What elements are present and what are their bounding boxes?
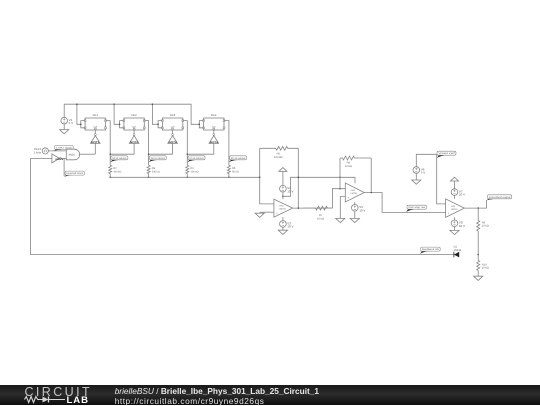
inverter NOT5 bbox=[52, 154, 64, 163]
AND gate AND1 bbox=[66, 149, 79, 160]
voltage source V6 bbox=[413, 167, 425, 175]
svg-text:Vset ref: Vset ref bbox=[438, 152, 455, 155]
junction Q column DF2 bbox=[148, 153, 150, 155]
voltage source V8 bbox=[451, 220, 465, 228]
junction OA3 output bbox=[477, 207, 479, 209]
svg-text:125 Hz subclock: 125 Hz subclock bbox=[189, 157, 204, 160]
svg-text:inverted clock: inverted clock bbox=[66, 172, 84, 175]
svg-text:250 Hz subclock: 250 Hz subclock bbox=[151, 157, 166, 160]
D flip-flop DF4 bbox=[203, 113, 225, 130]
wire DF2 Q output column bbox=[144, 121, 148, 166]
op-amp OA3 LM741 bbox=[446, 199, 465, 217]
wire V1 to bus bbox=[63, 104, 65, 117]
wire R3 to summing bus bbox=[148, 174, 150, 178]
wire R5 to summing bus bbox=[228, 174, 230, 178]
junction summing bus R4 bbox=[187, 177, 189, 179]
wire bus riser to DF2 bbox=[114, 104, 120, 124]
wire R7 to OA2 inverting input bbox=[332, 189, 345, 208]
svg-text:NOT3: NOT3 bbox=[169, 141, 178, 144]
svg-text:1N914: 1N914 bbox=[454, 249, 462, 252]
wire DF2 Q to NOT3 bbox=[149, 153, 173, 155]
D flip-flop DF1 bbox=[84, 113, 106, 130]
svg-text:100 kΩ: 100 kΩ bbox=[191, 170, 199, 173]
wire R4 to summing bus bbox=[186, 174, 188, 178]
svg-text:10 kΩ: 10 kΩ bbox=[317, 218, 324, 221]
svg-text:CLR: CLR bbox=[212, 125, 216, 128]
wire OA1 output to R7 bbox=[293, 207, 333, 209]
wire DF1 Q to NOT2 bbox=[110, 153, 134, 155]
wire R10 to ground bbox=[477, 270, 479, 276]
voltage source V2 bbox=[280, 185, 294, 193]
node flag Vset ref bbox=[437, 151, 456, 158]
wire V6 to ground bbox=[415, 173, 417, 180]
svg-text:5 V: 5 V bbox=[421, 171, 426, 175]
wire V8 to ground bbox=[454, 226, 456, 230]
junction summing bus R5 bbox=[228, 177, 230, 179]
wire feedback to NOT5 input bbox=[30, 157, 52, 159]
svg-text:400 kΩ: 400 kΩ bbox=[113, 170, 121, 173]
ground below R10 bbox=[474, 276, 483, 280]
junction loop DF4 bbox=[199, 124, 201, 126]
inverter NOT1 bbox=[91, 130, 101, 154]
resistor R6 100 kOhm (op-amp 1 feedback) bbox=[260, 146, 299, 159]
node flag 1 kHz clock bbox=[54, 145, 73, 151]
voltage source V5 bbox=[352, 205, 366, 213]
clock source CLK1 1 kHz bbox=[34, 147, 49, 154]
footer url text bbox=[115, 396, 265, 406]
svg-text:10 kΩ: 10 kΩ bbox=[345, 165, 352, 168]
resistor R8 10 kOhm (op-amp 2 feedback) bbox=[340, 156, 371, 168]
resistor R10 10 kOhm bbox=[477, 260, 489, 270]
svg-text:10 V: 10 V bbox=[459, 224, 465, 228]
resistor R4 100 kΩ bbox=[186, 165, 199, 173]
voltage source V3 bbox=[280, 221, 294, 229]
junction loop DF3 bbox=[157, 124, 159, 126]
node flag feedback clk bbox=[420, 247, 440, 254]
resistor R7 10 kOhm bbox=[303, 206, 332, 220]
svg-text:DF3: DF3 bbox=[170, 113, 176, 117]
svg-text:10 kΩ: 10 kΩ bbox=[482, 225, 489, 228]
CircuitLab logo CIRCUIT bbox=[25, 385, 93, 399]
svg-text:62.5 Hz subclock: 62.5 Hz subclock bbox=[231, 157, 246, 160]
V+ supply arrow above V7 bbox=[451, 177, 459, 181]
svg-text:500 Hz subclock: 500 Hz subclock bbox=[112, 157, 127, 160]
wire R6 to OA1 output bbox=[297, 148, 299, 208]
junction OA2 output/feedback bbox=[370, 192, 372, 194]
wire D feedback loop DF3 bbox=[158, 121, 162, 128]
D flip-flop DF2 bbox=[123, 113, 145, 130]
wire V3 to ground bbox=[282, 227, 284, 230]
ground below V1 bbox=[60, 130, 69, 134]
junction bus/DF2 riser bbox=[113, 103, 115, 105]
wire R9 to divider node bbox=[477, 231, 479, 255]
junction Q column DF3 bbox=[187, 153, 189, 155]
ground at OA1 + input bbox=[255, 213, 264, 217]
diode D1 1N914 bbox=[454, 246, 462, 258]
inverter NOT3 bbox=[168, 130, 178, 154]
node flag 250 Hz subclock bbox=[149, 156, 167, 163]
wire OA1 V- pin to V3 bbox=[282, 217, 284, 221]
node flag 125 Hz subclock bbox=[187, 156, 205, 163]
svg-text:NOT2: NOT2 bbox=[130, 141, 139, 144]
wire supply arrow to V7 bbox=[454, 181, 456, 189]
svg-text:DF1: DF1 bbox=[93, 113, 99, 117]
svg-text:NOT4: NOT4 bbox=[210, 141, 219, 144]
svg-text:CLR: CLR bbox=[171, 125, 175, 128]
inverter NOT2 bbox=[129, 130, 139, 154]
wire V2 to OA1 V+ pin bbox=[282, 192, 284, 199]
svg-text:smoothed output: smoothed output bbox=[489, 196, 511, 199]
voltage source V1 bbox=[61, 117, 73, 125]
wire AND1 output to NOT1 bbox=[80, 153, 96, 155]
junction Q column DF1 bbox=[109, 153, 111, 155]
wire DF3 Q to NOT4 bbox=[187, 153, 214, 155]
svg-text:CLR: CLR bbox=[93, 125, 97, 128]
svg-text:LM741: LM741 bbox=[451, 208, 458, 211]
wire R6 to OA1 inverting input bbox=[260, 148, 274, 204]
op-amp OA2 LM741 bbox=[345, 183, 364, 202]
wire OA2 + input to ground bbox=[340, 197, 345, 219]
wire DF3 Q output column bbox=[183, 121, 188, 166]
wire stub to inverted clock flag bbox=[63, 158, 65, 176]
wire ground to OA1 non-inverting input bbox=[260, 211, 274, 213]
junction bus/DF1 riser bbox=[76, 103, 78, 105]
inverter NOT4 bbox=[209, 130, 219, 154]
CircuitLab logo LAB bbox=[67, 395, 90, 406]
wire V5 to ground bbox=[354, 211, 356, 218]
wire node to R10 bbox=[477, 255, 479, 261]
junction summing bus / OA1 input bbox=[259, 177, 261, 179]
ground at OA2 + input bbox=[336, 218, 345, 222]
wire OA3 output to flag bbox=[464, 200, 486, 208]
svg-text:5 V: 5 V bbox=[69, 121, 74, 125]
wire supply arrow to V2 bbox=[282, 171, 284, 185]
svg-text:DF4: DF4 bbox=[211, 113, 217, 117]
wire R8 to OA2 output bbox=[370, 158, 372, 193]
wire OA2 V- pin to V5 bbox=[354, 202, 356, 205]
svg-text:2nd amp out: 2nd amp out bbox=[408, 206, 425, 209]
voltage source V7 bbox=[451, 189, 465, 197]
wire top bus to DF4 bbox=[64, 104, 199, 124]
ground below V8 bbox=[450, 230, 459, 234]
svg-text:10 V: 10 V bbox=[459, 193, 465, 197]
wire feedback bottom run bbox=[30, 254, 454, 256]
junction summing bus R2 bbox=[109, 177, 111, 179]
svg-text:-: - bbox=[276, 203, 277, 206]
wire R8 left leg bbox=[339, 158, 341, 189]
wire feedback left vertical bbox=[29, 158, 31, 254]
junction V+ rail crossing bbox=[298, 177, 300, 179]
svg-text:LM741: LM741 bbox=[279, 208, 286, 211]
wire DF1 Q output column bbox=[106, 121, 111, 166]
wire DF4 Q output column bbox=[224, 121, 229, 166]
CircuitLab logo doodle bbox=[24, 395, 70, 405]
svg-text:DF2: DF2 bbox=[131, 113, 137, 117]
junction loop DF1 bbox=[80, 124, 82, 126]
junction V+ rail crossing 2 bbox=[339, 177, 341, 179]
svg-text:-: - bbox=[348, 188, 349, 191]
wire V1 to ground bbox=[63, 124, 65, 130]
wire V6 to OA3 inverting input bbox=[416, 154, 445, 204]
junction divider node bbox=[477, 254, 479, 256]
wire D feedback loop DF1 bbox=[81, 121, 85, 128]
svg-text:AND1: AND1 bbox=[69, 154, 76, 157]
resistor R2 400 kΩ bbox=[109, 165, 122, 173]
svg-text:OA3: OA3 bbox=[451, 205, 456, 208]
junction bus/DF3 riser bbox=[152, 103, 154, 105]
wire bus riser to DF1 bbox=[77, 104, 81, 124]
resistor R3 200 kΩ bbox=[147, 165, 160, 173]
footer title text bbox=[115, 386, 319, 396]
wire OA2 output to OA3 + input bbox=[364, 193, 445, 213]
svg-text:10 V: 10 V bbox=[287, 225, 293, 229]
resistor R9 10 kOhm bbox=[477, 221, 489, 232]
svg-text:NOT1: NOT1 bbox=[91, 141, 100, 144]
wire V7 to OA3 V+ pin bbox=[454, 195, 456, 199]
ground below V6 bbox=[412, 180, 421, 184]
node flag smoothed output bbox=[487, 195, 512, 201]
node flag 62.5 Hz subclock bbox=[229, 156, 247, 163]
wire CLK1 to AND1 input A bbox=[48, 150, 66, 152]
svg-text:feedback clk: feedback clk bbox=[422, 248, 440, 251]
wire OA3 V- pin to V8 bbox=[454, 217, 456, 220]
D flip-flop DF3 bbox=[162, 113, 184, 130]
footer bar bbox=[0, 385, 540, 405]
wire bus riser to DF3 bbox=[152, 104, 158, 124]
node flag 500 Hz subclock bbox=[110, 156, 128, 163]
junction R8/OA2 input bbox=[339, 188, 341, 190]
svg-text:10 kΩ: 10 kΩ bbox=[482, 267, 489, 270]
svg-text:-: - bbox=[448, 203, 449, 206]
wire D feedback loop DF4 bbox=[199, 121, 203, 128]
wire OA3 output down to R9 bbox=[477, 208, 479, 220]
V+ supply arrow above V2 bbox=[279, 168, 287, 172]
node flag 2nd amp out bbox=[406, 205, 427, 212]
ground below V3 bbox=[278, 230, 287, 234]
svg-text:OA1: OA1 bbox=[279, 205, 284, 208]
svg-text:CLR: CLR bbox=[132, 125, 136, 128]
wire D feedback loop DF2 bbox=[120, 121, 124, 128]
junction OA1 output/feedback bbox=[298, 207, 300, 209]
svg-text:50 kΩ: 50 kΩ bbox=[232, 170, 239, 173]
wire R2 to summing bus bbox=[109, 174, 111, 178]
svg-text:200 kΩ: 200 kΩ bbox=[152, 170, 160, 173]
svg-text:OA2: OA2 bbox=[351, 189, 356, 192]
wire summing bus bbox=[110, 176, 260, 178]
node flag inverted clock bbox=[64, 171, 84, 177]
resistor R5 50 kΩ bbox=[227, 165, 238, 173]
svg-text:10 V: 10 V bbox=[359, 208, 365, 212]
op-amp OA1 LM741 bbox=[274, 199, 293, 217]
wire V+ rail to OA2 bbox=[283, 177, 355, 196]
junction loop DF2 bbox=[119, 124, 121, 126]
wire NOT5 to AND1 input B bbox=[61, 157, 66, 159]
svg-text:100 kΩ: 100 kΩ bbox=[274, 156, 282, 159]
ground below V5 bbox=[350, 218, 359, 222]
junction V+ rail tap bbox=[282, 196, 284, 198]
svg-text:LM741: LM741 bbox=[351, 192, 358, 195]
junction summing bus R3 bbox=[148, 177, 150, 179]
svg-text:1 kHz: 1 kHz bbox=[34, 150, 42, 154]
